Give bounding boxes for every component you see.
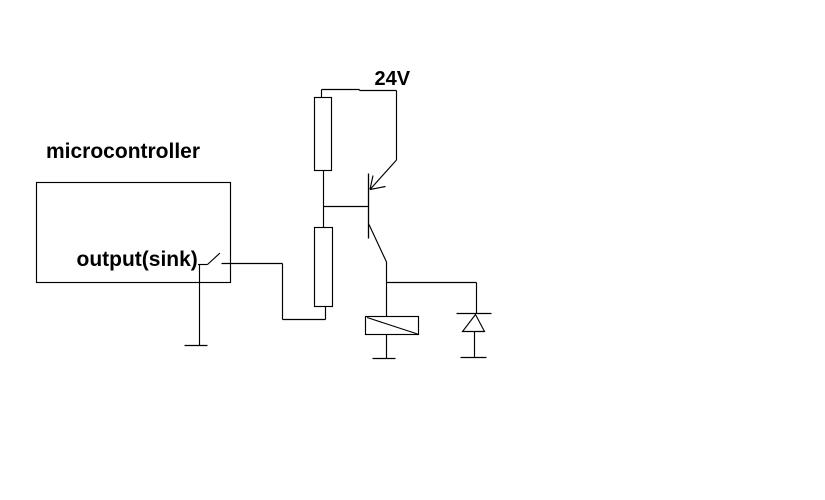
wire collector node to diode branch xyxy=(387,282,477,284)
relay coil K1 diagonal xyxy=(367,318,418,335)
wire down from output wire xyxy=(282,264,284,320)
wire collector down to relay xyxy=(386,262,388,317)
microcontroller box xyxy=(37,183,231,283)
svg-text:24V: 24V xyxy=(375,68,411,90)
wire relay to ground xyxy=(386,335,388,359)
wire diode to ground xyxy=(474,332,476,358)
diode D1 cathode bar xyxy=(457,313,492,315)
wire 24V rail right segment xyxy=(360,90,397,92)
wire up into R2 bottom xyxy=(325,306,327,320)
wire R2 top to R1 bottom xyxy=(323,171,325,228)
transistor Q1 base bar xyxy=(368,174,370,239)
switch pivot stub xyxy=(198,264,208,266)
ground GND3 (diode) xyxy=(461,357,487,359)
resistor R2 xyxy=(315,228,333,307)
relay coil K1 body xyxy=(366,317,419,335)
wire R1 top stub xyxy=(321,90,323,98)
transistor Q1 emitter lead xyxy=(370,160,397,190)
wire output to ground xyxy=(199,265,201,346)
svg-text:output(sink): output(sink) xyxy=(77,248,198,271)
wire 24V rail step xyxy=(359,90,361,91)
wire 24V rail left segment xyxy=(322,89,360,91)
transistor Q1 emitter arrowhead stroke 1 xyxy=(370,176,373,190)
ground GND2 (relay) xyxy=(373,358,396,360)
wire 24V down xyxy=(396,91,398,161)
wire output node to right xyxy=(222,263,283,265)
resistor R1 xyxy=(315,98,332,171)
wire horizontal to R2 bottom xyxy=(283,319,326,321)
transistor Q1 emitter arrowhead stroke 2 xyxy=(370,187,386,190)
diode D1 triangle xyxy=(463,315,485,332)
wire down to diode cathode xyxy=(476,283,478,314)
transistor Q1 collector lead xyxy=(369,225,387,263)
wire base tap xyxy=(324,206,369,208)
svg-text:microcontroller: microcontroller xyxy=(46,140,200,163)
ground GND1 (output) xyxy=(185,345,208,347)
switch blade (open contact) xyxy=(208,253,221,265)
